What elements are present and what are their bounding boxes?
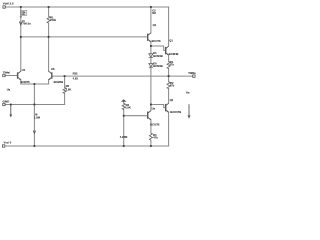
wire node to Q2 base — [151, 46, 166, 50]
wire resistor R0 bottom lead — [48, 23, 50, 37]
resistor R0 — [47, 16, 50, 23]
wire node to Q4 collector — [150, 105, 152, 111]
current arrow Ua right head — [188, 115, 191, 118]
wire bottom rail Vss — [5, 145, 169, 147]
emitter arrow Q4 — [149, 118, 151, 120]
wire tail column — [33, 84, 35, 146]
wire R3 stem — [123, 102, 125, 104]
emitter arrow left diff — [19, 78, 21, 80]
wire mid bias rail — [21, 36, 148, 38]
port GND — [3, 103, 5, 105]
transistor Q3 chain B bottom BCO07B — [165, 104, 167, 112]
svg-text:BOM4B: BOM4B — [169, 52, 179, 56]
resistor R3 — [122, 103, 125, 109]
wire left collector drop — [20, 37, 22, 71]
wire resistor R0 top lead — [48, 7, 50, 16]
wire chain A collector top — [150, 7, 152, 33]
wire R4 to bottom rail — [150, 140, 152, 146]
svg-text:Ua: Ua — [152, 106, 156, 110]
svg-text:I02: I02 — [152, 11, 156, 15]
transistor Q2 chain B top — [165, 47, 167, 54]
svg-text:BCO07B: BCO07B — [170, 110, 181, 114]
svg-text:Q1: Q1 — [169, 38, 173, 42]
svg-text:BCM4B: BCM4B — [54, 80, 64, 84]
svg-text:Q1: Q1 — [153, 23, 157, 27]
svg-text:Vss! 0: Vss! 0 — [4, 140, 12, 144]
emitter arrow Q1 — [149, 40, 151, 42]
svg-text:Vdd! 2.5: Vdd! 2.5 — [3, 2, 14, 6]
wire long output net — [52, 75, 193, 77]
diode D0 — [149, 64, 153, 67]
tail current source arrowhead — [33, 131, 35, 134]
svg-text:BCO78: BCO78 — [152, 39, 161, 43]
transistor Q1 chain A top BCO78 — [147, 34, 149, 41]
emitter arrow right diff — [49, 78, 51, 80]
svg-text:47b: 47b — [169, 62, 174, 66]
emitter arrow Q2 — [167, 54, 169, 56]
current arrow Ua left shaft — [10, 105, 12, 116]
wire R1 to out node — [168, 69, 170, 82]
box around I4 label — [21, 10, 27, 15]
emitter arrow Q3 — [167, 111, 169, 113]
svg-text:BCM4B: BCM4B — [153, 64, 163, 68]
current source I4 plus tick — [20, 16, 22, 18]
svg-text:47b: 47b — [153, 136, 158, 140]
wire chain B drop from rail — [168, 7, 170, 46]
svg-text:U6: U6 — [51, 67, 55, 71]
wire input port to left base — [5, 75, 18, 77]
wire Q1 emitter to node — [150, 42, 152, 46]
port TN#2a output — [193, 75, 195, 77]
wire Q4 emitter down — [150, 120, 152, 133]
port TN#a input — [3, 74, 5, 76]
svg-text:GND: GND — [3, 99, 11, 103]
resistor R5 — [63, 87, 66, 93]
resistor R2 chain B — [167, 82, 170, 89]
wire D1 to D0 — [150, 57, 152, 63]
transistor U4 left diff pair BCM75 — [17, 72, 19, 78]
svg-text:1.5K: 1.5K — [66, 88, 72, 92]
wire node to Q3 base — [151, 105, 166, 108]
wire R5 bottom lead — [64, 93, 66, 104]
svg-text:TN#2a: TN#2a — [188, 72, 196, 75]
current arrow Ua left head — [9, 115, 12, 118]
junction dots — [20, 6, 22, 8]
wire Q3 emitter down — [168, 112, 170, 146]
svg-text:BCO7B: BCO7B — [150, 123, 159, 127]
diode D1 — [149, 54, 153, 57]
current source I4 arrowhead — [19, 22, 22, 26]
svg-text:Q2: Q2 — [170, 98, 174, 102]
wire emitter rail — [21, 83, 49, 85]
resistor R4 — [149, 133, 152, 140]
wire Q2 emitter to R1 — [168, 55, 170, 61]
svg-text:1.5K: 1.5K — [125, 105, 131, 109]
wire left emitter down — [20, 80, 22, 84]
wire R2 to Q3 collector — [168, 89, 170, 104]
wire R5 top lead — [64, 76, 66, 87]
wire Q4 base from R3 node — [124, 115, 148, 117]
svg-text:BCM4B: BCM4B — [153, 54, 163, 58]
svg-text:R32: R32 — [73, 71, 78, 75]
wire D0 down crossing out net — [150, 67, 152, 104]
svg-text:Ua: Ua — [186, 91, 190, 95]
wire node to diode D1 — [150, 46, 152, 54]
wire R3 down to rail — [123, 110, 125, 146]
port Vdd — [3, 6, 5, 8]
svg-text:R5: R5 — [66, 84, 70, 88]
svg-text:BCM75: BCM75 — [21, 80, 31, 84]
wire right emitter down — [48, 80, 50, 84]
svg-text:4.52: 4.52 — [73, 76, 79, 80]
svg-text:700.0u: 700.0u — [22, 22, 31, 26]
current arrow up at R3 top — [121, 99, 127, 102]
svg-text:Ua: Ua — [7, 87, 11, 91]
svg-text:4.23M: 4.23M — [120, 135, 128, 139]
current arrow Ua right shaft — [188, 104, 190, 116]
resistor R1 chain B — [167, 62, 170, 69]
wire right collector drop — [48, 37, 50, 71]
svg-text:Idc: Idc — [22, 12, 26, 16]
transistor U6 right diff pair mirrored — [51, 72, 53, 78]
svg-text:47b: 47b — [170, 83, 175, 87]
svg-text:U4: U4 — [22, 68, 26, 72]
svg-text:700k: 700k — [50, 18, 56, 22]
wire current source I4 column — [20, 7, 22, 37]
wire top rail Vdd — [5, 6, 168, 8]
svg-text:1.5M: 1.5M — [34, 116, 41, 120]
transistor Q4 chain A bottom BCO7B — [147, 112, 149, 119]
svg-text:TN#a!: TN#a! — [3, 70, 10, 74]
wire gnd horizontal — [5, 104, 65, 106]
port Vss — [2, 145, 4, 147]
